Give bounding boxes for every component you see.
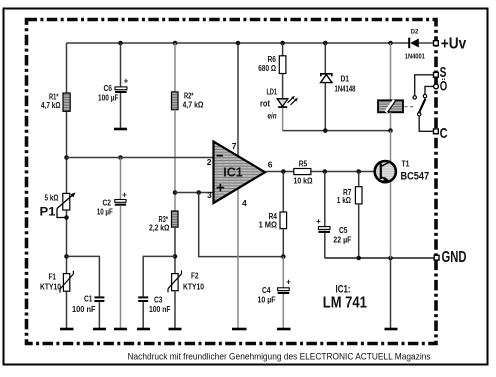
svg-text:T1: T1 bbox=[402, 159, 410, 169]
terminal GND bbox=[434, 249, 466, 266]
svg-text:GND: GND bbox=[442, 249, 467, 266]
node: top rail / pin7 bbox=[236, 41, 241, 46]
node: top rail / relay column bbox=[388, 41, 393, 46]
relay-switch mechanical link (dashed) bbox=[405, 106, 416, 108]
resistor R2 bbox=[172, 92, 204, 110]
contact circle O bbox=[423, 94, 426, 97]
resistor R4 bbox=[259, 212, 287, 229]
svg-text:KTY10: KTY10 bbox=[40, 283, 61, 292]
wire R4 bottom to node bbox=[282, 229, 284, 257]
capacitor C1 100nF bbox=[72, 295, 104, 329]
terminal +Uv bbox=[434, 36, 467, 53]
node: R7 / GND rail bbox=[356, 256, 361, 261]
svg-text:5 kΩ: 5 kΩ bbox=[45, 194, 59, 203]
wire D1 column top bbox=[324, 43, 326, 74]
svg-text:BC547: BC547 bbox=[401, 171, 430, 183]
wire op-amp output line y=171.5 bbox=[265, 171, 294, 173]
terminal C bbox=[434, 125, 448, 142]
node: P1/C1/F1 junction bbox=[64, 254, 69, 259]
svg-text:6: 6 bbox=[268, 159, 273, 169]
relay coil RE1 bbox=[378, 100, 403, 112]
svg-text:100 nF: 100 nF bbox=[149, 305, 171, 314]
svg-text:100 µF: 100 µF bbox=[98, 94, 119, 103]
wire pin4 column bbox=[237, 188, 239, 328]
svg-text:2: 2 bbox=[207, 157, 212, 167]
node: emitter / GND rail bbox=[388, 256, 393, 261]
svg-text:C1: C1 bbox=[84, 295, 93, 304]
dash-dot schematic frame bbox=[27, 20, 437, 344]
capacitor C2 10uF electrolytic bbox=[97, 191, 127, 329]
svg-text:+: + bbox=[316, 217, 321, 226]
wire emitter column bbox=[390, 182, 392, 258]
node: R2/R3/pin3 junction bbox=[173, 190, 178, 195]
svg-text:KTY10: KTY10 bbox=[183, 283, 204, 292]
wire left column x=66.5 (R1/P1/F1 chain) bbox=[66, 43, 68, 329]
terminal O (circle) bbox=[434, 78, 448, 93]
node: top rail / R6 bbox=[280, 41, 285, 46]
op-amp IC1 triangle bbox=[207, 141, 273, 208]
svg-text:2,2 kΩ: 2,2 kΩ bbox=[149, 223, 170, 232]
svg-text:R2*: R2* bbox=[184, 92, 194, 101]
node: relay / lower rail bbox=[388, 128, 393, 133]
svg-text:+: + bbox=[122, 191, 127, 200]
wire R7 column bbox=[358, 172, 360, 187]
ground bar under F2 bbox=[169, 328, 182, 331]
svg-text:10 kΩ: 10 kΩ bbox=[294, 177, 314, 186]
contact circle S bbox=[413, 96, 416, 99]
svg-text:R6: R6 bbox=[268, 55, 277, 64]
svg-text:D2: D2 bbox=[411, 29, 419, 36]
wire R2 to pin3 node bbox=[174, 110, 176, 211]
wire C5 column bbox=[324, 172, 326, 227]
svg-text:R5: R5 bbox=[299, 160, 308, 169]
svg-text:LD1: LD1 bbox=[267, 88, 278, 97]
wire R7 bottom to GND rail bbox=[358, 204, 360, 258]
LED LD1 bbox=[260, 88, 298, 121]
ground bar under C2 bbox=[114, 328, 127, 331]
svg-text:4,7 kΩ: 4,7 kΩ bbox=[41, 101, 61, 110]
svg-text:3: 3 bbox=[207, 190, 212, 200]
temperature sensor F2 KTY10 bbox=[168, 270, 204, 328]
capacitor C6 100uF electrolytic bbox=[98, 77, 129, 128]
node: R1/P1/pin2 junction bbox=[64, 155, 69, 160]
node: output line / C5 branch bbox=[323, 169, 328, 174]
ground bar under pin4 bbox=[232, 328, 247, 331]
diode D1 1N4148 bbox=[321, 74, 356, 94]
svg-text:10 µF: 10 µF bbox=[258, 296, 276, 305]
arm pivot circle bbox=[418, 113, 421, 116]
diode D2 1N4001 bbox=[405, 29, 425, 61]
wire pin7 column bbox=[237, 43, 239, 156]
resistor R6 bbox=[258, 55, 286, 74]
node: pin3 / feedback branch bbox=[196, 190, 201, 195]
node: pin2 wire / C2 bbox=[118, 155, 123, 160]
switch arm bbox=[418, 99, 425, 115]
svg-text:C3: C3 bbox=[154, 295, 163, 304]
node: R4/C4/feedback bbox=[281, 254, 286, 259]
potentiometer P1 bbox=[40, 192, 76, 219]
svg-text:C5: C5 bbox=[339, 226, 348, 235]
ground bar under C3 bbox=[137, 328, 150, 331]
svg-text:C4: C4 bbox=[262, 286, 271, 295]
text IC1: LM 741 bbox=[323, 283, 367, 311]
svg-text:C: C bbox=[440, 125, 448, 142]
wire op-amp pin2 line y=157.5 bbox=[67, 157, 214, 159]
svg-text:1 MΩ: 1 MΩ bbox=[259, 220, 278, 229]
wire top supply rail y=43 bbox=[67, 42, 434, 44]
ground bar under C6 bbox=[114, 128, 127, 131]
ground bar under emitter bbox=[385, 328, 398, 331]
wire R6 to LED bbox=[282, 74, 284, 99]
capacitor C5 22uF electrolytic bbox=[316, 217, 352, 258]
node: output line / R7 branch bbox=[356, 169, 361, 174]
node: top rail / C6 bbox=[118, 41, 123, 46]
wire ground drop below GND rail bbox=[390, 258, 392, 329]
wire R4 column bbox=[282, 172, 284, 213]
svg-text:IC1: IC1 bbox=[223, 166, 243, 180]
svg-text:4,7 kΩ: 4,7 kΩ bbox=[183, 100, 204, 109]
wire D1 bottom bbox=[324, 83, 326, 131]
wire LED bottom to lower rail bbox=[282, 108, 284, 131]
switch contact O wire bbox=[425, 86, 434, 94]
wire C6 column bbox=[120, 43, 122, 87]
wire arm to C terminal bbox=[419, 116, 433, 131]
wire R3 to F2 bbox=[174, 227, 176, 274]
node: output / R4 bbox=[281, 169, 286, 174]
svg-text:P1: P1 bbox=[40, 205, 56, 219]
resistor R7 bbox=[337, 187, 362, 205]
svg-text:1 kΩ: 1 kΩ bbox=[337, 196, 352, 205]
svg-text:C6: C6 bbox=[104, 84, 113, 93]
svg-text:1N4148: 1N4148 bbox=[335, 85, 356, 94]
svg-text:D1: D1 bbox=[341, 74, 350, 83]
wire C4 column bbox=[282, 257, 284, 288]
terminal S bbox=[434, 64, 447, 81]
wire C1 branch bbox=[67, 256, 100, 296]
wire op-amp pin3 line y=192.5 bbox=[175, 192, 214, 194]
node: top rail / D1 bbox=[323, 41, 328, 46]
wire GND rail y=258 bbox=[325, 257, 434, 259]
ground bar under F1 bbox=[60, 328, 74, 331]
svg-text:100 nF: 100 nF bbox=[72, 305, 96, 314]
svg-text:1N4001: 1N4001 bbox=[405, 53, 425, 60]
wire C3 branch bbox=[143, 256, 175, 296]
wire R2 column bbox=[174, 43, 176, 92]
svg-text:F2: F2 bbox=[191, 272, 199, 281]
capacitor C4 10uF electrolytic bbox=[258, 277, 292, 329]
svg-text:+Uv: +Uv bbox=[441, 36, 467, 53]
node: top rail / R2 bbox=[173, 41, 178, 46]
node: D1 / lower rail bbox=[323, 128, 328, 133]
wire lower rail y=130.6 bbox=[283, 130, 391, 132]
resistor R5 bbox=[294, 160, 314, 186]
svg-text:Ö: Ö bbox=[440, 78, 448, 93]
svg-text:rot: rot bbox=[260, 98, 270, 108]
temperature sensor F1 KTY10 bbox=[40, 271, 73, 293]
resistor R1 bbox=[41, 93, 70, 112]
wire relay bottom bbox=[390, 112, 392, 130]
svg-text:ein: ein bbox=[268, 111, 277, 121]
svg-text:680 Ω: 680 Ω bbox=[258, 64, 276, 73]
wire collector column bbox=[390, 131, 392, 162]
svg-text:10 µF: 10 µF bbox=[97, 208, 113, 217]
transistor T1 BC547 bbox=[375, 159, 429, 183]
resistor R3 bbox=[149, 211, 178, 232]
ground bar under C1 bbox=[93, 328, 106, 331]
switch contact S wire bbox=[415, 75, 434, 96]
node: R3/C3/F2 junction bbox=[173, 254, 178, 259]
svg-text:7: 7 bbox=[232, 141, 237, 151]
svg-text:F1: F1 bbox=[49, 272, 57, 281]
svg-text:4: 4 bbox=[242, 198, 247, 208]
svg-text:22 µF: 22 µF bbox=[333, 236, 351, 245]
svg-text:LM 741: LM 741 bbox=[323, 294, 367, 311]
wire C2 column bbox=[120, 158, 122, 200]
wire R6 column bbox=[282, 43, 284, 56]
svg-text:+: + bbox=[286, 277, 291, 286]
wire relay column top bbox=[390, 43, 392, 100]
ground bar under C4 bbox=[277, 328, 291, 331]
capacitor C3 100nF bbox=[138, 295, 170, 329]
svg-text:+: + bbox=[124, 77, 129, 86]
wire feedback branch to R4/C4 node bbox=[199, 193, 284, 257]
svg-text:C2: C2 bbox=[103, 198, 112, 207]
svg-text:Nachdruck mit freundlicher Gen: Nachdruck mit freundlicher Genehmigung d… bbox=[128, 352, 431, 362]
